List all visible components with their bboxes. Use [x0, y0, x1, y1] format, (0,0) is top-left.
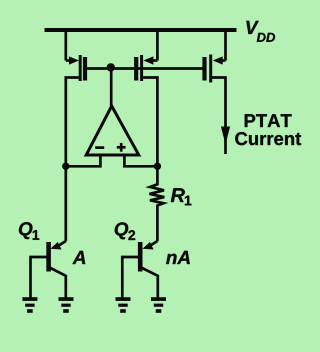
transistor Q1 base wire	[31, 257, 49, 299]
transistor Q2 emitter wire + arrow	[149, 241, 157, 246]
wire M3 drain / PTAT output	[211, 78, 226, 155]
node A dot (inverting input junction)	[62, 163, 69, 170]
transistor M2 source wire	[156, 30, 159, 61]
ground (Q1 collector)	[59, 297, 74, 313]
ground (Q1 base)	[22, 297, 37, 313]
transistor M1 gate bar	[83, 57, 87, 81]
wire M1 drain	[66, 78, 80, 242]
transistor M3 gate bar	[202, 57, 206, 81]
label Q2	[115, 222, 135, 240]
label PTAT Current	[235, 114, 301, 145]
op-amp U1	[86, 106, 139, 155]
PTAT current arrow	[221, 127, 230, 145]
wire M2 drain	[142, 78, 157, 167]
wire op-amp output to gates	[110, 67, 113, 106]
ground (Q2 base)	[116, 297, 131, 313]
transistor M1 source arrow	[69, 56, 79, 64]
node B dot (non-inverting input junction)	[154, 163, 161, 170]
transistor M2 channel bar	[140, 55, 143, 81]
transistor Q1 collector wire	[50, 268, 66, 299]
transistor M1 channel bar	[79, 55, 82, 81]
wire inverting input	[66, 155, 101, 166]
ground (Q2 collector)	[151, 297, 166, 313]
transistor Q1 base bar	[46, 242, 51, 272]
wire non-inverting input	[124, 155, 157, 166]
label nA (emitter area)	[166, 251, 190, 264]
transistor Q2 collector wire	[141, 268, 158, 299]
label VDD	[246, 21, 275, 42]
transistor M3 source wire	[224, 30, 227, 61]
wire gate bus	[85, 67, 205, 70]
op-amp plus sign	[117, 146, 126, 149]
transistor M3 source arrow	[213, 56, 223, 64]
transistor Q2 base wire	[122, 257, 140, 299]
node gate junction	[107, 63, 115, 71]
transistor M1 source wire	[64, 30, 67, 61]
transistor Q2 base bar	[138, 242, 143, 272]
transistor M3 channel bar	[209, 55, 212, 83]
op-amp minus sign	[95, 146, 104, 149]
label R1	[171, 188, 192, 205]
label A (emitter area)	[72, 251, 85, 264]
resistor R1	[150, 166, 165, 241]
transistor Q1 emitter wire + arrow	[58, 241, 66, 246]
transistor M2 gate bar	[134, 57, 138, 81]
VDD rail	[45, 28, 237, 32]
transistor M2 source arrow	[143, 56, 153, 64]
label Q1	[19, 222, 39, 240]
